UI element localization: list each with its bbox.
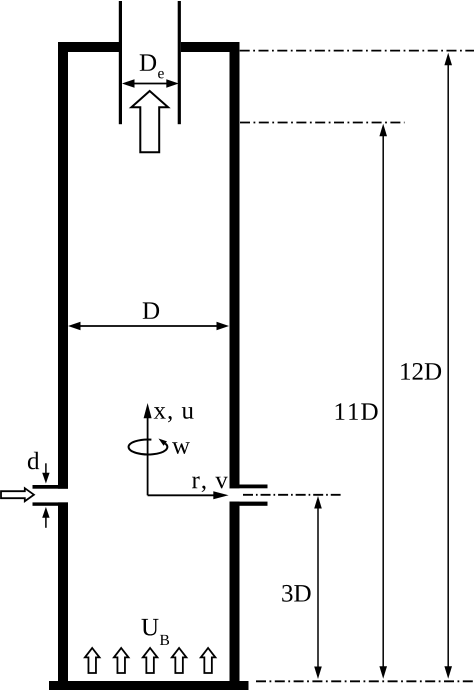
bulk flow hollow arrow 1 [85,648,100,673]
D dimension arrow [68,322,229,331]
chamber bottom wall [49,681,249,690]
3D dimension line [314,496,322,679]
label d [28,452,39,470]
label 12D [401,363,441,380]
d dimension arrow lower [42,507,49,528]
coordinate axis x (vertical) [144,403,152,495]
inlet slot top bar right [230,485,268,489]
chamber right wall upper [230,42,240,488]
label r, v [192,476,228,492]
label x, u [154,407,194,422]
exit pipe right wall [178,1,181,124]
dash-dot centerline exit pipe (11D datum) [240,122,405,124]
exit pipe left wall [119,1,122,124]
exit flow hollow arrow [131,91,168,152]
chamber left wall lower [58,502,68,681]
d dimension arrow upper [42,463,49,483]
dash-dot centerline inlet slot (3D datum) [243,494,341,496]
inlet slot bottom bar left [33,502,69,505]
bulk flow hollow arrow 3 [143,648,158,673]
bulk flow hollow arrow 5 [201,648,216,673]
label w [172,442,190,454]
bulk flow hollow arrow 4 [172,648,187,673]
dash-dot baseline bottom [256,680,474,682]
chamber left wall upper [58,42,68,489]
coordinate axis r (horizontal) [148,491,229,499]
De dimension arrow [122,79,179,88]
label 3D [282,585,310,602]
chamber right wall lower [230,502,240,682]
swirl ellipse w [129,439,168,455]
inlet slot bottom bar right [230,502,268,506]
inlet hollow arrow [1,488,34,501]
label De [140,54,156,70]
label UB [142,619,159,636]
label 11D [336,403,378,420]
chamber top wall left segment [58,42,119,52]
bulk flow hollow arrow 2 [114,648,129,673]
dash-dot centerline top (12D datum) [240,50,474,52]
label D [143,302,159,318]
11D dimension line [379,124,387,679]
chamber top wall right segment [181,42,240,52]
inlet slot top bar left [33,485,69,489]
12D dimension line [444,53,452,679]
